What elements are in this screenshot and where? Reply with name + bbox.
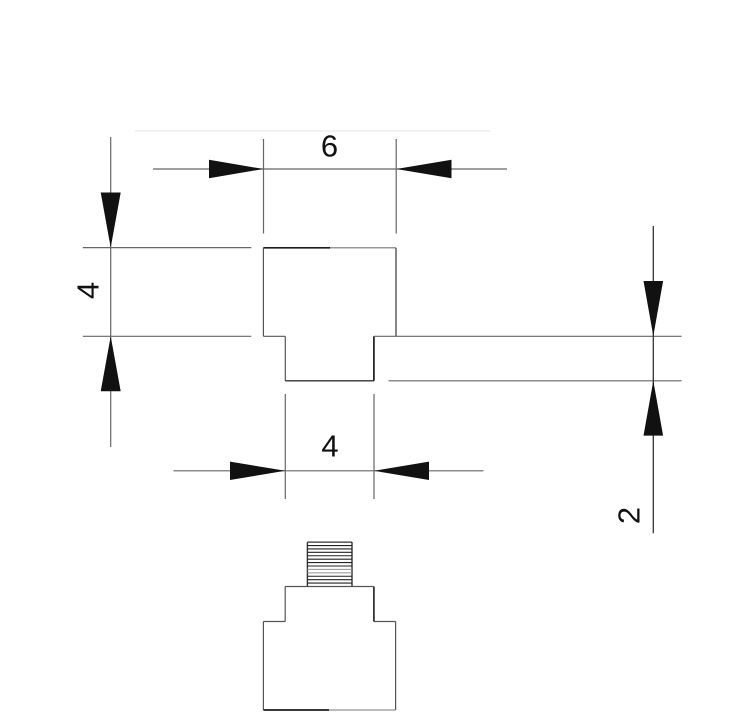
svg-text:2: 2	[611, 507, 646, 524]
svg-text:6: 6	[321, 129, 338, 164]
svg-text:4: 4	[70, 282, 105, 299]
svg-text:4: 4	[321, 429, 338, 464]
